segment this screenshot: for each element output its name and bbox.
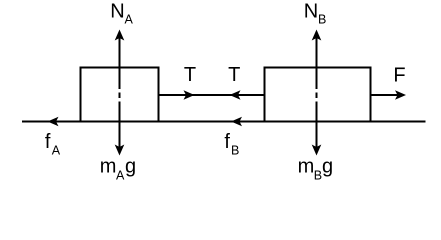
svg-text:T: T (228, 64, 240, 86)
svg-text:N: N (110, 1, 124, 23)
svg-text:A: A (52, 144, 61, 158)
svg-text:g: g (322, 156, 333, 178)
svg-text:T: T (184, 64, 196, 86)
svg-text:f: f (45, 131, 51, 153)
svg-text:A: A (125, 13, 134, 27)
svg-text:f: f (224, 131, 230, 153)
svg-text:F: F (393, 64, 405, 86)
svg-text:m: m (100, 156, 117, 178)
svg-text:N: N (304, 1, 318, 23)
svg-text:m: m (298, 156, 315, 178)
svg-text:B: B (231, 144, 239, 158)
svg-text:B: B (318, 13, 326, 27)
svg-text:g: g (125, 156, 136, 178)
svg-text:A: A (116, 169, 125, 183)
svg-text:B: B (314, 169, 322, 183)
